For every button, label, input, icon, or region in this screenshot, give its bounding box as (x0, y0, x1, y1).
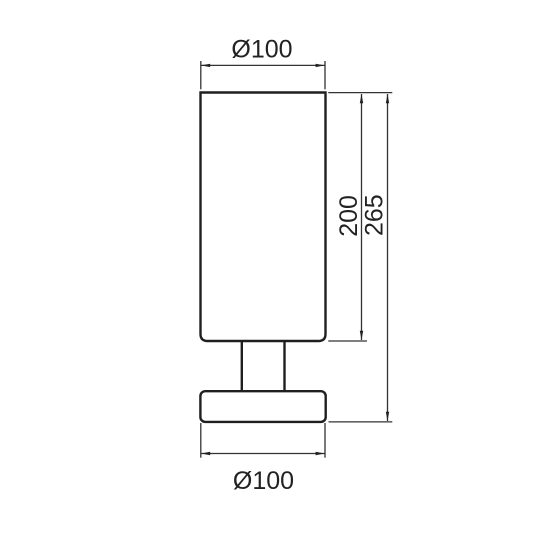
right extension line from base bottom (329, 421, 393, 423)
bottom dimension: extension line left (200, 423, 202, 458)
top dimension line (201, 64, 325, 66)
stem right edge (283, 340, 285, 392)
vertical dimension line 200 (361, 94, 363, 340)
top dimension: extension line right (324, 61, 326, 89)
base (rounded rectangle) (200, 391, 325, 422)
dimension 265 arrow top (386, 94, 389, 103)
stem left edge (241, 340, 243, 392)
dimension 200 arrow bottom (360, 331, 363, 340)
svg-text:Ø100: Ø100 (233, 467, 294, 495)
dimension 200 arrow top (360, 94, 363, 103)
right extension line from body bottom (328, 340, 367, 342)
bottom dimension line (201, 453, 325, 455)
top dimension arrow right (316, 64, 325, 67)
dimension 265 arrow bottom (386, 412, 389, 421)
svg-text:Ø100: Ø100 (231, 36, 292, 64)
top dimension: extension line left (200, 61, 202, 89)
svg-text:200: 200 (335, 195, 363, 237)
bottom dimension arrow left (201, 452, 210, 455)
svg-text:265: 265 (361, 194, 389, 236)
bottom dimension arrow right (316, 452, 325, 455)
lamp body (cylinder shade outline) (201, 93, 326, 342)
top dimension arrow left (201, 64, 210, 67)
vertical dimension line 265 (387, 94, 389, 421)
right extension line from body top (328, 92, 392, 94)
bottom dimension: extension line right (324, 423, 326, 458)
